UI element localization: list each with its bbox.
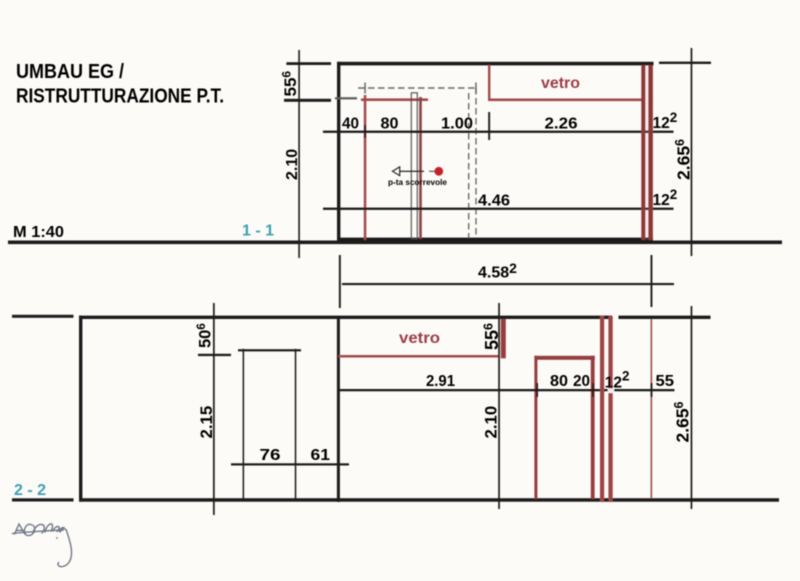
left stub top	[12, 315, 74, 318]
dimension line 2.91/80/20/12/55	[337, 389, 675, 391]
svg-text:1.00: 1.00	[441, 116, 473, 133]
dimension 4.58 line	[342, 283, 674, 285]
sliding door red dot	[434, 167, 443, 176]
svg-text:RISTRUTTURAZIONE P.T.: RISTRUTTURAZIONE P.T.	[16, 86, 224, 108]
red jamb x=420	[419, 97, 422, 239]
svg-text:20: 20	[573, 373, 590, 390]
red vertical wall double line right (outer)	[641, 65, 645, 240]
red wall gap tint	[645, 65, 648, 240]
svg-text:4.46: 4.46	[478, 193, 510, 210]
red door 80 top bar	[534, 356, 594, 360]
scan break in dim line under 12	[608, 388, 614, 393]
svg-text:2.10: 2.10	[482, 406, 501, 439]
svg-text:UMBAU EG /: UMBAU EG /	[16, 61, 124, 83]
sliding door arrow shaft	[400, 171, 424, 172]
dashed pocket cross left	[364, 83, 366, 94]
svg-text:2 - 2: 2 - 2	[14, 482, 46, 499]
tick 55.6 top	[286, 62, 331, 65]
svg-text:vetro: vetro	[399, 330, 440, 347]
red sill vetro line (bottom section)	[339, 355, 499, 358]
wall bottom thickening section 1-1	[337, 238, 653, 241]
red wall double line bottom (outer)	[600, 316, 604, 502]
top right dimension extension line	[659, 62, 711, 64]
svg-text:40: 40	[342, 116, 359, 133]
red door 80 left jamb	[534, 356, 537, 499]
right vertical dimension line bottom section	[691, 306, 693, 509]
svg-text:2.26: 2.26	[545, 116, 578, 133]
svg-text:80: 80	[381, 116, 399, 133]
svg-text:1 - 1: 1 - 1	[242, 223, 274, 240]
svg-text:vetro: vetro	[541, 75, 580, 92]
svg-text:M 1:40: M 1:40	[13, 224, 64, 241]
dimension 4.58 right tick	[651, 255, 653, 307]
red post x=504	[501, 319, 506, 358]
tick at x=365	[364, 125, 366, 138]
wall left edge section 2-2	[79, 316, 82, 502]
door 76 right jamb	[295, 349, 297, 499]
door 76 top dimension line	[238, 349, 301, 351]
red vertical wall double line right (inner)	[648, 65, 653, 240]
wall left edge section 1-1	[337, 62, 340, 244]
dashed vertical x=468.7	[468, 93, 470, 238]
dimension vertical x=214	[213, 303, 215, 515]
lintel line inside wall	[335, 97, 357, 99]
svg-text:76: 76	[260, 447, 281, 464]
sliding door dash to dot	[429, 171, 435, 172]
wall top edge section 2-2 part 2	[619, 316, 711, 319]
door leaf thin rectangle	[411, 93, 417, 239]
thin red vertical x=651	[651, 319, 653, 498]
dimension line 4.46	[323, 208, 674, 210]
left stub bottom	[12, 498, 74, 501]
wall vertical x=338 section 2-2	[337, 317, 340, 502]
dashed vertical x=476	[475, 88, 477, 238]
tick x=593	[592, 383, 594, 397]
right vertical dimension line top section	[691, 48, 693, 256]
svg-text:2.91: 2.91	[426, 373, 455, 390]
wall bottom edge section 2-2	[79, 498, 779, 502]
dimension vertical x=499	[498, 303, 500, 509]
red wall double line bottom (inner)	[608, 316, 612, 502]
dimension line 76/61	[231, 463, 349, 465]
svg-text:55: 55	[656, 373, 675, 390]
tick 50.6 bottom	[198, 354, 231, 356]
sliding door arrow head	[393, 167, 400, 176]
red jamb x=489 top	[488, 65, 490, 101]
svg-text:2.10: 2.10	[284, 149, 301, 180]
left vertical dimension line x=300	[298, 50, 300, 258]
red jamb x=365	[364, 95, 367, 240]
red sill vetro line (top section)	[489, 99, 642, 102]
signature	[13, 524, 72, 567]
dimension 4.58 left tick	[339, 255, 341, 308]
tick x=537	[536, 383, 538, 397]
tick at x=489	[488, 112, 490, 140]
red lintel over 80 door	[361, 98, 428, 101]
ground baseline section 1-1	[8, 241, 782, 245]
tick x=651 bottom dim	[651, 383, 653, 397]
door 76 left jamb	[243, 349, 245, 499]
svg-text:61: 61	[311, 447, 331, 464]
dashed pocket cross right	[475, 83, 477, 94]
dimension line 40/80/1.00/2.26	[323, 131, 674, 133]
wall top edge section 1-1	[337, 62, 654, 66]
tick 55.6 bottom	[284, 99, 331, 102]
svg-text:2.15: 2.15	[197, 406, 216, 439]
red door 80 right jamb	[591, 356, 595, 499]
dashed pocket horizontal	[358, 87, 478, 89]
svg-text:80: 80	[550, 373, 568, 390]
svg-text:p-ta scorrevole: p-ta scorrevole	[388, 177, 447, 187]
wall top edge section 2-2 part 1	[79, 316, 612, 319]
